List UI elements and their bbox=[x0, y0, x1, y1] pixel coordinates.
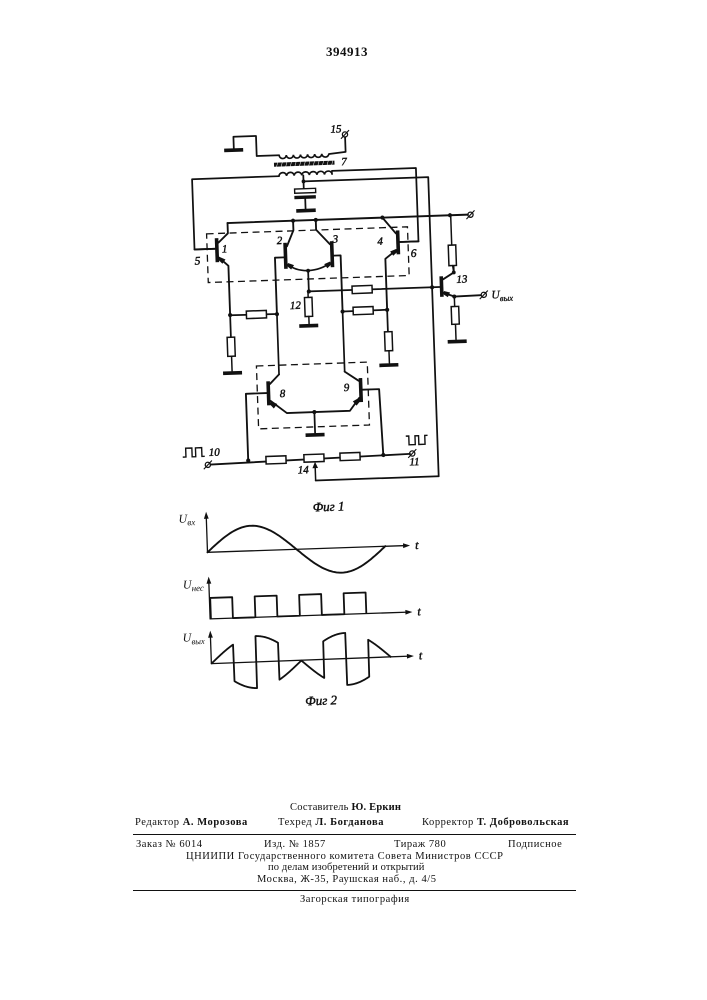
Q2 emitter arrow bbox=[287, 263, 294, 270]
terminal U-vykh bbox=[479, 290, 488, 299]
transistor Q8 base bar bbox=[266, 381, 270, 405]
ground (under R12) bbox=[299, 324, 318, 328]
node bus / R13 branch bbox=[448, 213, 452, 217]
transistor Q1 base bar bbox=[215, 238, 219, 262]
node wireB / Q13 base bbox=[430, 285, 434, 289]
pulse symbol 11 bbox=[406, 435, 428, 445]
Q13 emitter to output bbox=[444, 292, 481, 297]
resistor (input bus right) bbox=[340, 452, 360, 460]
transistor Q4 base bar bbox=[396, 230, 400, 254]
ground (under Q4 load) bbox=[379, 363, 398, 367]
wire Q3 base node down to Q9 collector bbox=[343, 312, 345, 372]
svg-text:1: 1 bbox=[222, 243, 228, 255]
footer credits bbox=[290, 802, 401, 813]
svg-text:Uвых: Uвых bbox=[491, 289, 513, 304]
resistor (between nodes 2) bbox=[353, 307, 373, 315]
node Q13 emitter bbox=[452, 294, 456, 298]
Q3 collector bbox=[316, 219, 330, 244]
svg-text:Uвх: Uвх bbox=[178, 511, 195, 528]
node input bus / Q8 base bbox=[246, 458, 250, 462]
terminal (supply, top right) bbox=[466, 210, 475, 219]
node Q8/Q9 emitters bbox=[312, 410, 316, 414]
resistor (Q4 emitter load) bbox=[385, 332, 393, 351]
transistor Q9 base bar bbox=[359, 378, 363, 402]
wire Q2 base node down to Q8 collector bbox=[277, 314, 279, 374]
resistor 12 bbox=[304, 297, 312, 316]
transistor Q13 base bar bbox=[439, 276, 443, 297]
transformer secondary winding bbox=[279, 171, 332, 176]
wire R13 to Q13 collector bbox=[453, 266, 454, 273]
Q9 emitter arrow bbox=[353, 398, 360, 406]
Q9 base wire to input bus bbox=[363, 389, 384, 456]
svg-text:15: 15 bbox=[330, 123, 342, 135]
wire primary-left zigzag bbox=[233, 135, 279, 157]
Q4 emitter bbox=[385, 250, 398, 310]
wire emitters to ground bbox=[313, 412, 316, 433]
chopped sine wave bbox=[210, 631, 392, 689]
terminal 15 bbox=[341, 130, 350, 139]
svg-text:4: 4 bbox=[377, 236, 383, 248]
Q9 emitter bbox=[314, 398, 360, 412]
svg-text:11: 11 bbox=[409, 456, 420, 468]
wire Q13-emitter resistor to ground bbox=[454, 324, 457, 339]
wire R12 to ground bbox=[308, 316, 310, 323]
node center-tap junction bbox=[302, 179, 306, 183]
Q4 base wire bbox=[400, 240, 419, 243]
wire secondary right stub bbox=[331, 171, 333, 174]
title patent number bbox=[326, 44, 366, 60]
capacitor bottom plate bbox=[294, 195, 316, 199]
ground (top-left) bbox=[224, 148, 243, 152]
Q2 base wire down bbox=[275, 257, 286, 314]
Q4 emitter arrow bbox=[390, 249, 397, 256]
wire A secondary-right to T4 base bbox=[332, 168, 419, 244]
terminal 10 bbox=[203, 461, 212, 470]
node input bus / Q9 base bbox=[381, 453, 385, 457]
resistor (between nodes) bbox=[246, 310, 266, 318]
waveform U_nes axes bbox=[209, 580, 210, 619]
svg-text:2: 2 bbox=[277, 235, 283, 247]
wire secondary-left rail to T1 base bbox=[192, 176, 281, 249]
resistor (Q13 emitter load) bbox=[451, 306, 459, 324]
dashed enclosure 5/6 (transistors 1-4) bbox=[207, 227, 410, 283]
svg-text:14: 14 bbox=[298, 464, 310, 476]
Q1 base wire bbox=[195, 248, 215, 251]
Q3 base wire down bbox=[334, 255, 343, 311]
dashed enclosure (transistors 8,9) bbox=[256, 362, 369, 429]
svg-text:8: 8 bbox=[280, 388, 286, 400]
svg-text:t: t bbox=[415, 538, 419, 552]
node 12 junction bbox=[307, 289, 311, 293]
node bus / T2 collector bbox=[291, 219, 295, 223]
wire down to resistor bbox=[229, 315, 232, 337]
node Q2/Q3 emitters bbox=[306, 269, 310, 273]
Q4 collector bbox=[383, 217, 396, 233]
potentiometer wiper arrow 14 bbox=[314, 464, 317, 480]
svg-text:10: 10 bbox=[209, 447, 221, 459]
Q2 emitter bbox=[288, 264, 309, 272]
svg-text:t: t bbox=[417, 604, 421, 618]
Q3 emitter bbox=[308, 263, 331, 271]
node Q3 base junction bbox=[340, 309, 344, 313]
resistor (Q13 collector load) bbox=[448, 245, 456, 266]
wire Q4-load resistor to ground bbox=[388, 351, 390, 363]
node Q1 emitter junction bbox=[228, 313, 232, 317]
wire node12 to R12 bbox=[307, 291, 309, 298]
Q8 emitter arrow bbox=[270, 401, 277, 409]
wire Q3base-node to Q4emitter-node bbox=[343, 310, 388, 312]
resistor (base of Q13) bbox=[352, 285, 372, 293]
wire capacitor to ground bbox=[304, 199, 306, 209]
resistor (potentiometer 14) bbox=[304, 454, 324, 462]
wire term15 to primary bbox=[329, 137, 346, 154]
svg-text:Uнес: Uнес bbox=[183, 577, 205, 594]
svg-text:13: 13 bbox=[456, 273, 468, 285]
svg-text:3: 3 bbox=[332, 233, 339, 245]
Q9 collector diagonal bbox=[345, 371, 359, 381]
Q8 emitter bbox=[271, 399, 315, 413]
node bus / T4 collector bbox=[380, 215, 384, 219]
terminal 11 bbox=[408, 449, 417, 458]
wire Q13 emitter to resistor bbox=[453, 297, 455, 307]
node Q4 emitter junction bbox=[385, 308, 389, 312]
carrier square pulses bbox=[210, 593, 366, 619]
wire node12 to Q13 base bbox=[309, 287, 440, 292]
Q2 collector bbox=[286, 221, 294, 247]
wire Q1-load resistor to ground bbox=[231, 356, 234, 371]
ground (left) bbox=[223, 371, 242, 375]
ground (under Q8/Q9) bbox=[306, 433, 325, 437]
pulse symbol 10 bbox=[182, 448, 204, 458]
waveform U_vykh axes bbox=[210, 634, 211, 664]
sine wave bbox=[207, 521, 387, 577]
svg-text:Фиг 1: Фиг 1 bbox=[312, 498, 344, 514]
waveform U_vx axes bbox=[206, 515, 207, 553]
resistor (input bus left) bbox=[266, 456, 286, 464]
svg-text:7: 7 bbox=[341, 156, 347, 168]
ground (under Q13 emitter load) bbox=[448, 339, 467, 343]
svg-text:5: 5 bbox=[194, 255, 200, 267]
node bus / T3 collector bbox=[314, 218, 318, 222]
transformer primary winding bbox=[279, 154, 329, 159]
transistor Q2 base bar bbox=[283, 243, 288, 269]
transistor Q3 base bar bbox=[330, 241, 335, 267]
wire input bus bbox=[210, 454, 410, 465]
svg-text:t: t bbox=[419, 648, 423, 662]
ground (under capacitor) bbox=[296, 208, 316, 212]
capacitor (filter) top plate bbox=[295, 188, 316, 193]
wire bus to R13 bbox=[451, 215, 452, 245]
wire B center-tap to T13 base / wiper rail bbox=[304, 177, 439, 480]
wire supply bus bbox=[228, 215, 468, 223]
wire wiper to Q13 base rail bbox=[316, 476, 439, 480]
Q8 base wire to input bus bbox=[246, 393, 269, 460]
Q13 collector bbox=[443, 266, 454, 279]
svg-text:6: 6 bbox=[411, 248, 417, 260]
wire Q1emitter to Q2base bbox=[230, 314, 277, 316]
wire center tap down to capacitor bbox=[302, 175, 304, 188]
svg-text:9: 9 bbox=[344, 382, 350, 394]
Q1 emitter bbox=[219, 257, 230, 315]
Q13 emitter arrow bbox=[444, 291, 451, 298]
svg-text:Uвых: Uвых bbox=[182, 630, 205, 647]
node Q13 collector bbox=[452, 270, 456, 274]
Q1 emitter arrow bbox=[219, 257, 226, 264]
wire Q4 emitter down bbox=[386, 310, 389, 332]
resistor (Q1 emitter load) bbox=[227, 337, 235, 356]
transformer core 7 bbox=[274, 161, 335, 167]
Q8 collector diagonal bbox=[270, 374, 280, 384]
svg-text:12: 12 bbox=[290, 300, 302, 312]
Q3 emitter arrow bbox=[324, 262, 331, 269]
node Q2 base junction bbox=[275, 312, 279, 316]
Q1 collector bbox=[218, 223, 228, 243]
svg-text:Фиг 2: Фиг 2 bbox=[305, 692, 338, 708]
wire Q2/Q3 emitters to node bbox=[307, 271, 310, 292]
